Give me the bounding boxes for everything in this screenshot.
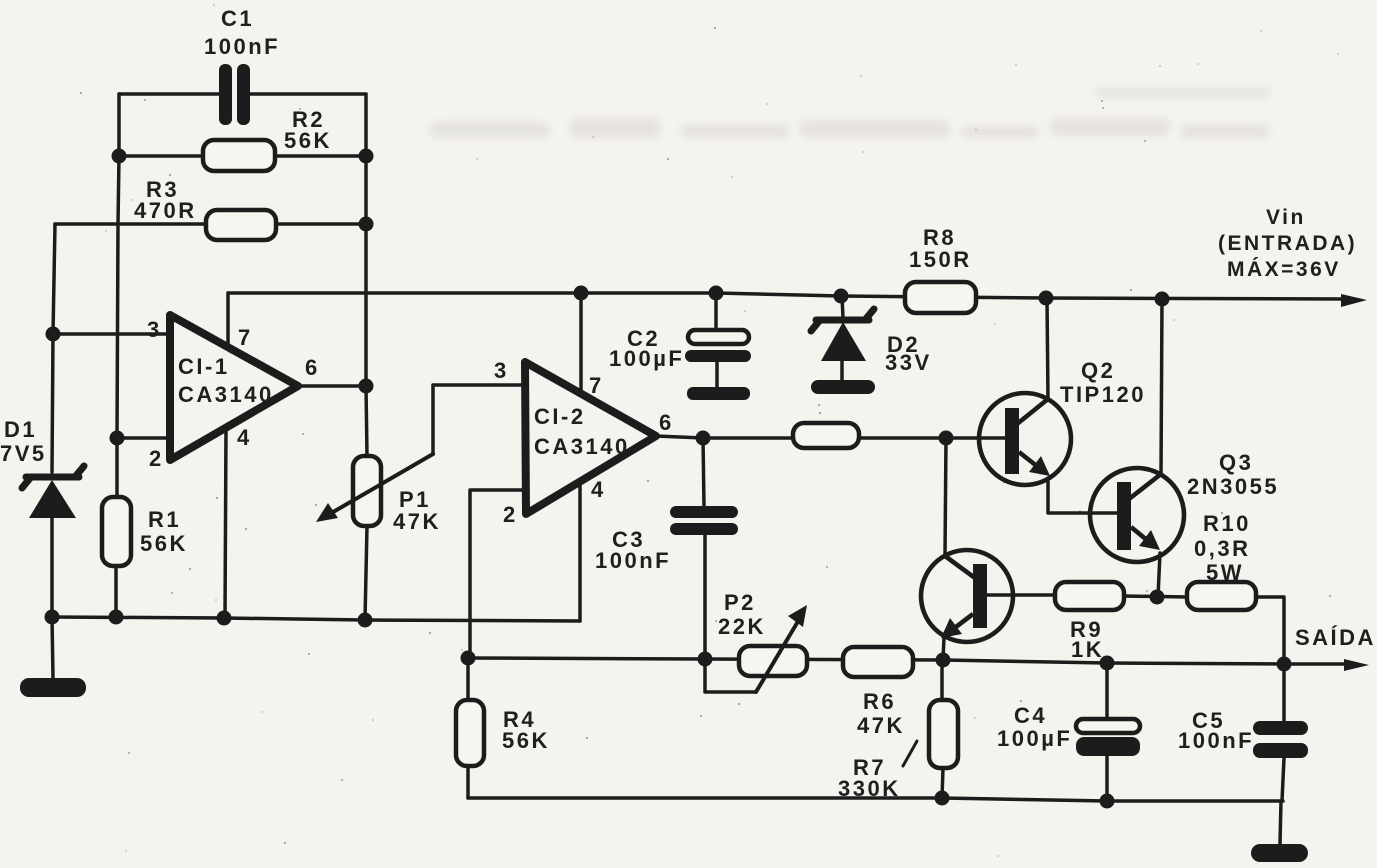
- junction +V rail / CI-2 pin 7: [574, 286, 589, 301]
- junction Q3 emitter / R9 / R10: [1150, 590, 1165, 605]
- wire: +V rail: [228, 293, 1345, 299]
- wire: CI-1 output: [298, 384, 366, 388]
- svg-text:56K: 56K: [284, 128, 332, 153]
- wire: CI-2 pin4: [578, 484, 582, 621]
- svg-text:100nF: 100nF: [1178, 728, 1254, 753]
- wire: C1 top loop: [119, 92, 222, 96]
- junction CI-2 output node / C3: [696, 431, 711, 446]
- junction R2 right / feedback column: [359, 149, 374, 164]
- junction output bus / C5 / R10 feed: [1277, 657, 1292, 672]
- resistor R4: [456, 700, 484, 766]
- resistor R1: [102, 497, 131, 566]
- svg-text:100nF: 100nF: [204, 34, 280, 59]
- svg-text:CA3140: CA3140: [178, 382, 274, 407]
- junction ground bus / R1: [109, 610, 124, 625]
- Q3 emitter arrow: [1131, 527, 1153, 545]
- wire: CI-2 pin2: [470, 490, 524, 658]
- capacitor C5: [1253, 721, 1308, 735]
- svg-text:P2: P2: [724, 590, 756, 615]
- svg-text:470R: 470R: [134, 198, 197, 223]
- resistor R10: [1187, 582, 1256, 610]
- wire R4 to bottom bus: [466, 766, 470, 798]
- wire Q3 collector from +V rail: [1161, 299, 1162, 474]
- wire: CI-2 output to R5: [656, 436, 793, 438]
- wire output bus node to R7: [940, 660, 944, 700]
- wire C2 to ground: [715, 362, 719, 387]
- svg-text:7V5: 7V5: [0, 441, 47, 466]
- resistor R3: [206, 210, 276, 240]
- svg-text:C4: C4: [1014, 703, 1047, 728]
- svg-text:CA3140: CA3140: [534, 434, 630, 459]
- wire: zener column x=54: [52, 224, 55, 472]
- junction output bus / C4: [1100, 656, 1115, 671]
- svg-text:R10: R10: [1203, 511, 1251, 536]
- wire +V rail to D2: [842, 296, 843, 318]
- svg-text:4: 4: [237, 425, 252, 450]
- svg-text:0,3R: 0,3R: [1194, 536, 1250, 561]
- wire Q1 emitter to output bus: [943, 637, 944, 660]
- junction R3 right / feedback column: [359, 217, 374, 232]
- wire +V rail to C2: [714, 293, 718, 330]
- svg-text:(ENTRADA): (ENTRADA): [1218, 232, 1357, 255]
- junction bottom bus / R7: [935, 791, 950, 806]
- resistor R2: [203, 140, 275, 171]
- wire Q1 collector from R5 node: [945, 438, 946, 556]
- bottom bus: [468, 798, 1283, 801]
- ground (bottom right): [1251, 844, 1308, 862]
- junction R1 top / CI-1 pin 2: [110, 431, 125, 446]
- wire: CI-1 pin4 to ground bus: [225, 428, 226, 618]
- svg-text:CI-1: CI-1: [178, 354, 230, 379]
- junction ground bus / CI-1 pin 4: [217, 611, 232, 626]
- svg-text:1K: 1K: [1071, 637, 1104, 662]
- wire C4 to bottom bus: [1105, 754, 1109, 801]
- wire R7 to bottom bus: [942, 768, 943, 798]
- wire: R5 right to Q2 base: [859, 436, 1005, 440]
- wire R9 to R10: [1124, 596, 1187, 597]
- wire Q1 base to R9: [987, 593, 1055, 597]
- arrow Vin: [1341, 294, 1367, 307]
- capacitor C4 (electrolytic): [1076, 719, 1140, 733]
- svg-text:7: 7: [238, 325, 253, 350]
- wire output bus to C5: [1282, 664, 1286, 721]
- svg-text:2: 2: [149, 446, 164, 471]
- svg-text:7: 7: [589, 373, 604, 398]
- wire: CI-2 pin7: [579, 293, 583, 394]
- junction +V rail / D2: [834, 289, 849, 304]
- transistor Q1 (BD134) body: [921, 550, 1013, 642]
- wire: CI-1 pin3: [53, 332, 170, 336]
- junction +V rail / Q2 collector: [1039, 291, 1054, 306]
- svg-text:3: 3: [147, 317, 162, 342]
- transistor Q3 (2N3055) body: [1090, 468, 1184, 562]
- op-amp CI-1: [170, 315, 298, 460]
- svg-text:2N3055: 2N3055: [1187, 474, 1279, 499]
- resistor R6: [843, 647, 913, 677]
- wire CI-2 output node to C3: [703, 438, 704, 506]
- wire: R2 row: [119, 154, 366, 158]
- junction D1 column / CI-1 pin 3: [46, 327, 61, 342]
- svg-text:Vin: Vin: [1266, 206, 1306, 229]
- wire bottom bus to ground: [1280, 801, 1281, 844]
- wire C5 to bottom bus: [1282, 758, 1284, 801]
- capacitor C1: [219, 64, 232, 125]
- svg-text:4: 4: [591, 477, 606, 502]
- svg-text:R1: R1: [148, 507, 181, 532]
- resistor R8 (in rail): [905, 282, 976, 313]
- zener diode D2 (33V): [811, 309, 874, 331]
- svg-text:MÁX=36V: MÁX=36V: [1227, 258, 1341, 281]
- wire: left column x=118: [117, 94, 119, 497]
- wire Q2 emitter to Q3 base: [1048, 478, 1117, 513]
- junction bottom bus / C4: [1100, 794, 1115, 809]
- wire: CI-1 pin2: [117, 436, 170, 440]
- wire output bus node to R4: [466, 658, 470, 700]
- resistor R7: [929, 700, 958, 768]
- svg-text:33V: 33V: [885, 350, 932, 375]
- transistor Q2 (TIP120) body: [979, 393, 1071, 485]
- svg-text:TIP120: TIP120: [1060, 382, 1146, 407]
- svg-text:100nF: 100nF: [595, 548, 671, 573]
- svg-text:Q2: Q2: [1081, 358, 1115, 383]
- wire: CI-1 pin7 to rail: [226, 293, 230, 347]
- junction +V rail / C2: [709, 286, 724, 301]
- wire P2 wiper return to C3 node: [705, 659, 756, 692]
- junction output bus / C3 / P2 wiper: [698, 652, 713, 667]
- capacitor C2 (electrolytic): [688, 330, 749, 344]
- junction ground bus / P1: [358, 613, 373, 628]
- wire Q2 collector from +V rail: [1047, 299, 1048, 399]
- svg-text:D1: D1: [4, 417, 37, 442]
- P1 wiper arrow: [328, 454, 433, 515]
- svg-text:22K: 22K: [718, 614, 766, 639]
- wire: R3 row: [55, 222, 366, 226]
- svg-text:47K: 47K: [857, 713, 905, 738]
- svg-text:C1: C1: [221, 6, 254, 31]
- wire: right feedback column x=366: [366, 94, 367, 456]
- zener diode D1 (7V5): [22, 466, 84, 488]
- resistor R9: [1055, 582, 1124, 610]
- junction +V rail / Q3 collector: [1155, 292, 1170, 307]
- Q1 emitter arrow: [948, 614, 973, 633]
- ground (below C2): [687, 387, 750, 400]
- scan smudge artifacts: [430, 88, 1270, 138]
- ground (left): [20, 678, 86, 697]
- svg-text:3: 3: [494, 358, 509, 383]
- slash near R7: [903, 741, 917, 766]
- wire P1 wiper to CI-2 pin3: [431, 385, 435, 454]
- wire: ground bus: [52, 617, 580, 621]
- potentiometer P1 body: [353, 456, 381, 526]
- svg-text:56K: 56K: [140, 531, 188, 556]
- wire R10 to output bus: [1256, 597, 1284, 664]
- svg-text:47K: 47K: [393, 509, 441, 534]
- svg-text:SAÍDA: SAÍDA: [1295, 625, 1376, 650]
- svg-text:150R: 150R: [909, 247, 972, 272]
- ground (below D2): [811, 380, 875, 394]
- Q2 emitter arrow: [1019, 452, 1043, 471]
- wire C3 to output bus: [703, 535, 707, 659]
- wire D2 to ground: [840, 361, 844, 381]
- potentiometer P2: [739, 646, 807, 676]
- junction R2 left / left column: [112, 149, 127, 164]
- wire: CI-2 pin3: [433, 383, 524, 387]
- junction output bus / CI-2 pin 2 / R4: [461, 651, 476, 666]
- svg-text:330K: 330K: [838, 776, 901, 801]
- svg-text:100µF: 100µF: [997, 726, 1072, 751]
- wire output bus to C4: [1105, 663, 1109, 719]
- svg-text:5W: 5W: [1206, 560, 1244, 585]
- wire Q3 emitter to R9/R10 node: [1158, 553, 1160, 597]
- svg-text:6: 6: [305, 355, 320, 380]
- svg-text:CI-2: CI-2: [534, 404, 586, 429]
- svg-text:Q3: Q3: [1219, 450, 1253, 475]
- junction R5 / Q2 base / Q1 collector: [939, 431, 954, 446]
- svg-text:6: 6: [659, 410, 674, 435]
- junction ground bus / D1: [45, 610, 60, 625]
- svg-text:R6: R6: [863, 689, 896, 714]
- junction output bus / Q1 emitter / R7: [936, 653, 951, 668]
- op-amp CI-2: [525, 362, 656, 514]
- resistor R5: [793, 423, 859, 448]
- svg-text:100µF: 100µF: [609, 346, 684, 371]
- svg-text:56K: 56K: [502, 728, 550, 753]
- svg-text:2: 2: [503, 502, 518, 527]
- capacitor C3: [670, 506, 738, 518]
- main output bus: [468, 658, 1345, 664]
- P2 wiper arrow: [756, 618, 800, 692]
- junction CI-1 output / feedback column: [359, 379, 374, 394]
